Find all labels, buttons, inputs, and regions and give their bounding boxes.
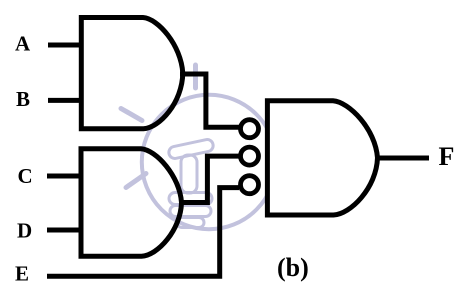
svg-text:F: F (439, 142, 455, 171)
AND gate U2 (inputs C,D) (81, 149, 182, 257)
watermark ray lower-left (126, 174, 146, 188)
inverter bubble 1 (241, 120, 259, 138)
wire gate1 output to bubble 1 (180, 74, 239, 127)
wire gate2 output to bubble 2 (181, 156, 239, 202)
svg-text:D: D (17, 219, 32, 243)
watermark T stem (181, 155, 197, 193)
wire D (47, 228, 83, 233)
watermark T crossbar (168, 138, 215, 159)
svg-text:E: E (15, 261, 29, 285)
wire E bottom run up to bubble 3 (47, 188, 239, 277)
wire A (48, 43, 83, 48)
watermark base bar 1 (169, 193, 212, 205)
inverter bubble 3 (241, 176, 259, 194)
svg-text:B: B (16, 87, 30, 111)
watermark bulb circle (142, 95, 276, 229)
inverter bubble 2 (241, 147, 259, 165)
svg-text:(b): (b) (277, 253, 309, 282)
svg-text:C: C (18, 164, 33, 188)
AND gate U1 (inputs A,B) (81, 18, 183, 129)
watermark base bar 2 (170, 206, 211, 217)
watermark lightbulb (121, 65, 276, 229)
wire B (48, 98, 83, 103)
watermark ray top (193, 65, 198, 88)
watermark base bar 3 (177, 218, 204, 228)
wire F output (378, 156, 429, 161)
watermark ray upper-left (121, 109, 142, 121)
svg-text:A: A (15, 32, 31, 56)
wire C (47, 174, 83, 179)
AND gate U3 with inverted inputs (output F) (267, 101, 377, 215)
